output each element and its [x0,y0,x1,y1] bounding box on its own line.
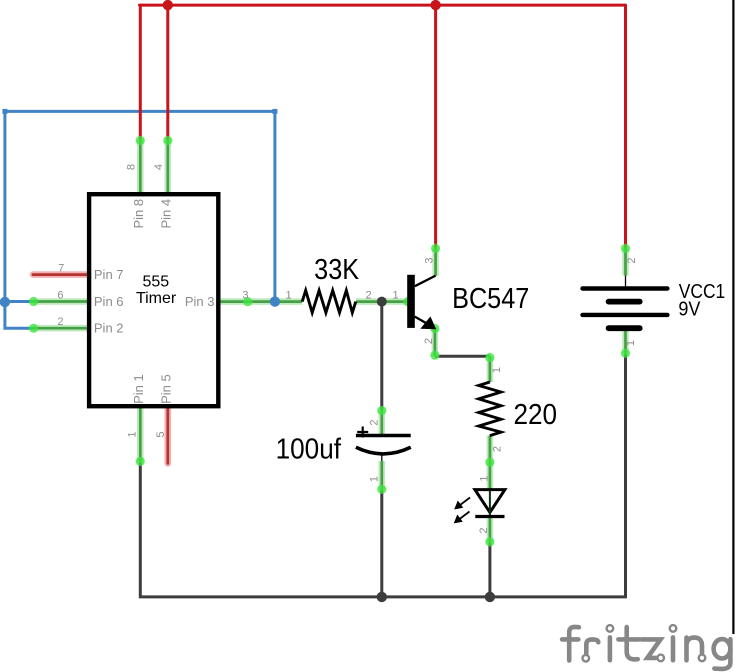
fritzing logo [562,625,730,669]
555 pin 2 lead [33,327,88,330]
svg-text:1: 1 [368,476,380,482]
wire dark gray ground run: pin1 down, bottom rail, battery minus up [140,355,625,597]
resistor R2 bottom lead to LED anode [489,436,492,489]
wire dark gray LED bottom to ground rail [488,543,491,597]
resistor R2 top lead [489,356,492,382]
battery negative lead [624,328,627,354]
value label BC547 [452,281,529,314]
svg-text:9V: 9V [678,299,700,321]
svg-text:Pin 5: Pin 5 [159,374,174,404]
svg-text:Pin 4: Pin 4 [159,199,174,229]
junction dot red A [163,0,173,10]
capacitor C1 positive lead [380,410,383,436]
555 pin 3 lead and wire to resistor R1 [220,300,303,303]
value label 220 [514,398,558,431]
junction dot red B [430,0,440,10]
capacitor C1 negative lead [380,461,383,490]
svg-text:Pin 6: Pin 6 [94,294,124,309]
svg-text:2: 2 [491,446,503,452]
wire dark gray capacitor top from junction [380,302,383,410]
battery positive lead [624,248,627,276]
svg-text:1: 1 [126,431,138,437]
value label 100uf [276,432,342,465]
frame right edge [732,0,734,634]
svg-text:1: 1 [285,289,291,301]
svg-text:2: 2 [369,419,381,425]
svg-text:7: 7 [58,263,64,275]
junction dot blue at pin6 branch [0,297,10,307]
value label 33K [314,253,359,286]
junction dot dark at capacitor ground node [377,592,387,602]
svg-text:1: 1 [491,367,503,373]
resistor R2 220 zigzag vertical [479,382,501,436]
transistor Q1 BC547 [407,275,436,330]
svg-text:Pin 7: Pin 7 [94,267,124,282]
wire red vertical to 555 pin 8 [139,5,142,139]
svg-text:1: 1 [479,475,491,481]
battery BT1 [583,276,668,329]
svg-text:5: 5 [155,431,167,437]
svg-text:33K: 33K [314,253,359,286]
svg-text:2: 2 [478,527,490,533]
svg-text:6: 6 [57,289,63,301]
LED D1 [454,490,505,524]
wire dark gray capacitor bottom to ground rail [380,490,383,597]
resistor R1 lead to transistor base [356,300,408,303]
555 pin 7 lead (red, unconnected) [33,271,88,278]
wire red vertical to transistor collector [434,5,437,247]
transistor emitter lead [434,328,437,357]
op text 555 Timer [136,274,177,308]
capacitor C1 100uf polarized [356,427,411,461]
svg-text:2: 2 [423,338,435,344]
junction dot dark at LED ground node [485,592,495,602]
resistor R1 33K zigzag [302,290,356,312]
value label VCC1 9V [678,280,725,321]
pin number labels gray small [57,164,638,534]
svg-text:Pin 3: Pin 3 [185,294,215,309]
555 pin 1 lead [139,408,142,463]
svg-text:220: 220 [514,398,558,431]
svg-text:4: 4 [153,164,165,170]
wire red top horizontal VCC rail [140,4,626,7]
wire dark gray emitter horizontal [435,355,490,358]
wire red vertical to 555 pin 4 [166,5,169,139]
svg-text:Timer: Timer [136,290,177,307]
svg-text:Pin 1: Pin 1 [131,374,146,404]
transistor collector lead [434,248,437,276]
wire red vertical to battery plus [624,5,627,247]
IC U1 555 timer body [89,194,218,406]
svg-text:2: 2 [365,289,371,301]
555 pin 8 lead [139,140,142,194]
junction dot dark at resistor/cap/base node [377,297,387,307]
555 pin 6 lead [33,300,88,303]
svg-text:BC547: BC547 [452,281,529,314]
junction dot blue at pin3 branch [270,296,280,306]
svg-text:3: 3 [242,289,248,301]
pin name labels gray [94,199,215,404]
green connection glow dots [29,136,630,547]
svg-text:1: 1 [625,340,637,346]
svg-text:2: 2 [57,316,63,328]
green pins group: halo layer [33,140,626,544]
wire blue net: pin3 to pin6/pin2 loop [2,109,277,328]
svg-text:1: 1 [393,289,399,301]
svg-text:Pin 8: Pin 8 [131,199,146,229]
LED cathode lead [489,517,492,543]
svg-text:100uf: 100uf [276,432,342,465]
555 pin 5 lead (red, unconnected) [165,408,172,464]
555 pin 4 lead [166,140,169,194]
svg-text:Pin 2: Pin 2 [94,321,124,336]
svg-text:3: 3 [424,257,436,263]
svg-text:8: 8 [126,164,138,170]
svg-text:2: 2 [626,257,638,263]
svg-text:555: 555 [142,274,169,291]
